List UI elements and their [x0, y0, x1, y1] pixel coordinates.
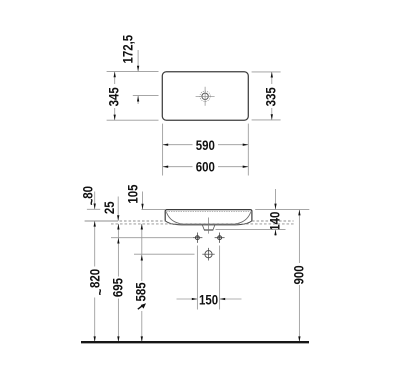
ext line drain level left: [133, 95, 159, 97]
svg-text:590: 590: [196, 138, 215, 153]
ext line top-left of top view: [107, 71, 159, 73]
floor line: [81, 341, 309, 343]
dim ~80: [81, 186, 100, 209]
dim 900: [291, 210, 306, 342]
counter line (right dashed part): [252, 220, 294, 222]
svg-text:80: 80: [81, 186, 96, 199]
ext line top-right of top view: [252, 71, 281, 73]
fixing hole right (front view): [215, 233, 225, 243]
ext line right vertical below top view: [247, 124, 249, 176]
drain centerline (front view): [208, 218, 210, 234]
small NE arrow under 585: [138, 303, 146, 309]
svg-text:900: 900: [291, 265, 306, 284]
dim ~820: [88, 221, 108, 342]
dim 25: [102, 197, 119, 221]
dim 600: [163, 160, 249, 175]
basin inner rim line (front view): [166, 211, 251, 213]
dim 140: [268, 189, 283, 236]
svg-text:335: 335: [263, 87, 278, 106]
ext line bottom-left of top view: [107, 119, 159, 121]
ext line at fixing holes level: [111, 237, 192, 239]
dim 105: [126, 185, 144, 210]
dim 172,5: [121, 35, 139, 104]
dim 345: [106, 72, 121, 121]
svg-text:172,5: 172,5: [121, 35, 136, 64]
dim 590: [163, 138, 249, 153]
ext line left vertical for dim 150: [196, 246, 198, 310]
ext line left vertical below top view: [162, 124, 164, 176]
basin body (front view): [165, 210, 252, 221]
dim 335: [263, 72, 278, 120]
ext line bottom-right of top view: [252, 119, 281, 121]
inner bowl outline (front view): [166, 212, 250, 224]
basin outline (top view): [162, 72, 248, 120]
dim 150: [177, 293, 242, 308]
svg-text:25: 25: [102, 201, 117, 214]
tap hole (front view): [202, 248, 214, 261]
dim 585 (line shared with dim 105 lower arrow): [134, 224, 149, 342]
ext line for 140 bottom: [216, 228, 286, 230]
svg-text:600: 600: [196, 160, 215, 175]
counter line (left dashed part): [120, 220, 166, 222]
drain (top view): [196, 87, 215, 106]
rim extension line left: [142, 209, 166, 211]
svg-text:105: 105: [126, 185, 141, 204]
svg-text:585: 585: [134, 282, 149, 301]
svg-text:150: 150: [199, 293, 218, 308]
svg-text:~: ~: [93, 289, 108, 296]
hidden bottom line (dashed): [111, 223, 294, 225]
tick line for dim 80: [87, 208, 100, 210]
dim 695 (line shared with dim 25 lower arrow): [110, 224, 125, 342]
fixing hole left (front view): [192, 233, 202, 243]
svg-text:345: 345: [106, 87, 121, 106]
ext line right vertical for dim 150: [219, 246, 221, 310]
ext line at tap hole level: [134, 253, 195, 255]
svg-text:820: 820: [88, 269, 103, 288]
drain outlet (front view): [202, 225, 215, 230]
svg-text:695: 695: [110, 278, 125, 297]
svg-text:~: ~: [84, 199, 99, 206]
counter line (left solid part): [85, 220, 118, 222]
basin bowl bottom curve (front view): [165, 221, 252, 225]
svg-text:140: 140: [268, 212, 283, 231]
rim extension line right: [255, 209, 309, 211]
